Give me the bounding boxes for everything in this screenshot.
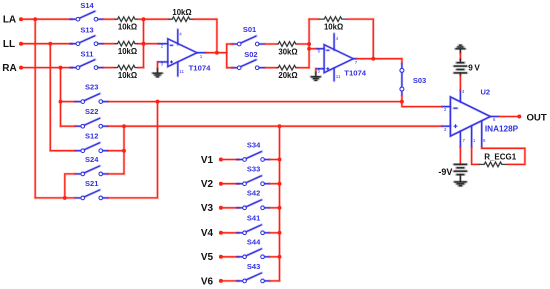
node LA (input terminal) <box>3 15 23 26</box>
wire V4 to switch <box>221 232 239 235</box>
wire battery to pin4 <box>459 73 462 90</box>
wire S44 to V bus <box>270 255 280 258</box>
op-amp U1A T1074 <box>158 29 206 76</box>
svg-text:LL: LL <box>3 39 15 50</box>
wire U1A output <box>206 51 227 54</box>
svg-text:S33: S33 <box>247 165 260 174</box>
wire RA vertical bus x=60 <box>59 68 62 127</box>
svg-text:RA: RA <box>2 63 16 74</box>
svg-text:V1: V1 <box>201 155 214 166</box>
switch S02 <box>231 50 264 70</box>
resistor 10k feedback U1B <box>319 17 348 32</box>
svg-text:4: 4 <box>336 36 339 41</box>
wire RA row to switch S11 <box>21 66 72 69</box>
junction LL bus <box>48 42 52 46</box>
ground at U1A plus input <box>153 62 163 77</box>
wire V1 to switch <box>221 158 239 161</box>
junction V bus V2 <box>278 182 282 186</box>
svg-text:10kΩ: 10kΩ <box>118 71 137 80</box>
wire ground to battery <box>459 53 462 62</box>
svg-text:-9V: -9V <box>438 167 452 177</box>
junction S21 riser <box>156 100 160 104</box>
switch S34 <box>237 140 270 161</box>
svg-text:10kΩ: 10kΩ <box>324 22 343 31</box>
resistor 10k (RA) <box>115 65 139 80</box>
wire V6 to switch <box>221 280 239 283</box>
wire RA bus to S22 <box>61 125 76 128</box>
svg-text:30kΩ: 30kΩ <box>278 48 297 57</box>
svg-text:OUT: OUT <box>526 112 546 123</box>
svg-text:S12: S12 <box>85 132 98 141</box>
svg-text:U2: U2 <box>481 88 491 97</box>
switch S22 <box>75 107 108 128</box>
switch S43 <box>237 262 270 283</box>
svg-text:S01: S01 <box>243 25 256 34</box>
wire feedback right <box>194 19 217 53</box>
wire pin1 to gain resistor <box>472 147 479 164</box>
junction S03 minus line <box>400 100 404 104</box>
switch S01 <box>231 25 264 46</box>
wire plus line <box>108 125 442 128</box>
battery V3 9V <box>454 63 481 73</box>
svg-text:7: 7 <box>355 60 358 65</box>
svg-text:1: 1 <box>473 138 476 143</box>
switch S23 <box>75 83 108 104</box>
wire to U1B minus <box>309 47 317 50</box>
op-amp U1B T1074 <box>316 33 356 81</box>
wire OUT <box>499 115 520 118</box>
switch S11 <box>70 49 103 69</box>
svg-text:V2: V2 <box>201 179 214 190</box>
op-amp U2 INA128P <box>442 90 499 147</box>
junction summing at op-amp input <box>142 42 146 46</box>
svg-text:10kΩ: 10kΩ <box>172 8 191 17</box>
svg-text:S24: S24 <box>85 155 99 164</box>
ground at U1B plus input <box>311 69 321 81</box>
switch S13 <box>70 25 103 45</box>
svg-text:S34: S34 <box>247 140 261 149</box>
switch S41 <box>237 214 270 235</box>
wire S14 to R LA <box>103 18 114 21</box>
wire LA vertical bus x=35 <box>34 19 37 198</box>
wire minus line <box>108 100 402 103</box>
wire S41 to V bus <box>270 232 280 235</box>
svg-text:9 V: 9 V <box>468 63 480 72</box>
wire S21 riser to minus line <box>108 102 157 198</box>
node OUT <box>517 112 547 123</box>
svg-text:S21: S21 <box>85 179 98 188</box>
junction riser-plus line <box>122 124 126 128</box>
wire sum column op2 <box>308 19 311 68</box>
svg-text:V6: V6 <box>201 276 214 287</box>
wire feedback right U1B <box>348 19 374 59</box>
wire R LA to junction <box>138 18 144 21</box>
switch S33 <box>237 165 270 186</box>
svg-text:S13: S13 <box>80 25 93 34</box>
wire S11 to R RA <box>103 66 114 69</box>
wire RA bus to S23 <box>61 100 76 103</box>
node V3 (input terminal) <box>201 203 223 214</box>
svg-text:8: 8 <box>483 138 486 143</box>
svg-text:S42: S42 <box>247 189 260 198</box>
wire S42 to V bus <box>270 207 280 210</box>
junction summing top <box>142 17 146 21</box>
junction feedback-output U1B <box>371 57 375 61</box>
wire down to S03 <box>401 59 404 64</box>
wire V2 to switch <box>221 182 239 185</box>
wire minus jog to INA <box>402 102 442 107</box>
wire S03 to minus line <box>401 96 404 102</box>
wire junction to op-amp U1A minus <box>144 42 159 45</box>
wire branch to S01/S02 <box>225 44 228 68</box>
junction V bus V1 <box>278 158 282 162</box>
wire V5 to switch <box>221 255 239 258</box>
wire S13 to R LL <box>103 42 114 45</box>
svg-text:INA128P: INA128P <box>485 124 519 133</box>
node LL (input terminal) <box>3 39 23 50</box>
switch S42 <box>237 189 270 210</box>
wire S24 feed riser <box>65 174 75 198</box>
svg-text:11: 11 <box>336 74 341 79</box>
svg-text:S43: S43 <box>247 262 260 271</box>
wire feedback top (to 10k) <box>144 18 169 21</box>
wire R LL to junction <box>138 42 144 45</box>
ground above 9V battery <box>459 49 462 54</box>
svg-text:S44: S44 <box>247 238 261 247</box>
wire U1B output <box>357 57 402 60</box>
wire S12 to riser <box>108 149 124 152</box>
svg-text:S22: S22 <box>85 107 98 116</box>
junction feedback-output <box>215 51 219 55</box>
svg-text:3: 3 <box>444 127 447 132</box>
battery V4 -9V <box>438 164 467 177</box>
switch S03 <box>400 64 426 96</box>
junction RA-S23 <box>59 100 63 104</box>
junction V bus V4 <box>278 231 282 235</box>
wire battery to ground <box>459 175 462 182</box>
svg-text:1: 1 <box>200 54 203 59</box>
switch S44 <box>237 238 270 259</box>
wire S34 to V bus <box>270 158 280 161</box>
resistor 10k (LL) <box>115 41 139 56</box>
junction V bus plus line <box>278 124 282 128</box>
wire S01 to R 30k <box>265 43 277 46</box>
wire S33 to V bus <box>270 182 280 185</box>
junction S12-riser <box>122 149 126 153</box>
wire R30k to sum <box>298 43 310 46</box>
svg-text:V3: V3 <box>201 203 214 214</box>
svg-text:S11: S11 <box>81 49 94 58</box>
resistor 20k <box>277 65 298 80</box>
junction op2 minus <box>307 47 311 51</box>
wire R20k to sum <box>298 66 310 69</box>
svg-text:T1074: T1074 <box>344 69 367 78</box>
wire S01 branch <box>227 43 234 46</box>
node V4 (input terminal) <box>201 228 223 239</box>
svg-text:S41: S41 <box>247 214 260 223</box>
wire LL row to switch S13 <box>21 42 72 45</box>
resistor R_ECG1 <box>479 152 517 166</box>
node V6 (input terminal) <box>201 276 223 287</box>
wire R RA to junction <box>138 66 144 69</box>
svg-text:7: 7 <box>462 138 465 143</box>
switch S14 <box>70 1 103 21</box>
svg-text:4: 4 <box>179 31 182 36</box>
wire LL bus to S12 <box>50 149 75 152</box>
wire V bus vertical <box>278 126 281 281</box>
svg-text:6: 6 <box>493 117 496 122</box>
svg-text:T1074: T1074 <box>189 64 212 73</box>
resistor 10k feedback U1A <box>169 8 194 21</box>
wire S12/S24 riser <box>123 126 126 174</box>
svg-text:V5: V5 <box>201 252 214 263</box>
switch S21 <box>75 179 108 200</box>
svg-text:20kΩ: 20kΩ <box>278 71 297 80</box>
svg-text:LA: LA <box>3 15 16 26</box>
wire summing junction column x=143 <box>142 19 145 67</box>
junction LA bus <box>33 17 37 21</box>
svg-text:S14: S14 <box>80 1 94 10</box>
wire V3 to switch <box>221 207 239 210</box>
node V1 (input terminal) <box>201 155 223 166</box>
wire gain resistor loop <box>482 147 525 164</box>
wire LA line to S21 <box>35 197 75 200</box>
junction 30k output <box>307 42 311 46</box>
svg-text:V4: V4 <box>201 228 214 239</box>
svg-text:10kΩ: 10kΩ <box>118 23 137 32</box>
svg-text:2: 2 <box>444 107 447 112</box>
switch S24 <box>75 155 108 176</box>
wire S02 branch <box>227 66 234 69</box>
junction S24 riser on LA line <box>63 196 67 200</box>
switch S12 <box>75 132 108 153</box>
svg-text:10kΩ: 10kΩ <box>118 47 137 56</box>
wire S24 to riser <box>108 173 124 176</box>
svg-text:4: 4 <box>462 89 465 94</box>
svg-text:S02: S02 <box>244 50 257 59</box>
resistor 10k (LA) <box>115 17 139 32</box>
node V5 (input terminal) <box>201 252 223 263</box>
junction RA bus <box>59 66 63 70</box>
svg-text:R_ECG1: R_ECG1 <box>484 152 517 161</box>
wire S43 to V bus <box>270 280 280 283</box>
junction V bus V3 <box>278 206 282 210</box>
svg-text:S23: S23 <box>85 83 98 92</box>
resistor 30k <box>277 42 298 57</box>
wire LA row to switch S14 <box>21 18 72 21</box>
wire feedback top U1B <box>309 18 318 21</box>
ground below -9V battery <box>454 182 466 186</box>
node V2 (input terminal) <box>201 179 223 190</box>
wire LL vertical bus x=50 <box>49 44 52 151</box>
junction V bus V5 <box>278 255 282 259</box>
svg-text:S03: S03 <box>413 76 426 85</box>
wire S02 to R 20k <box>265 66 277 69</box>
wire pin7 to -9V battery <box>459 147 462 164</box>
svg-text:11: 11 <box>179 69 184 74</box>
node RA (input terminal) <box>2 63 23 74</box>
